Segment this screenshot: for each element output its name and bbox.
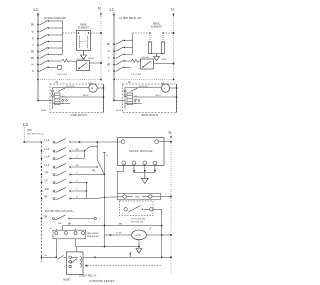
wire motor feed (M2): [125, 87, 161, 89]
motor FM1 (cool-down fan): [105, 229, 153, 240]
svg-text:OVEN RELAY: OVEN RELAY: [79, 274, 97, 277]
node L1 tap to module: [37, 100, 52, 102]
svg-text:DB: DB: [44, 214, 48, 218]
wire main bus dashed (bottom): [41, 142, 43, 262]
svg-text:BK: BK: [107, 44, 111, 46]
node junction on N at B1: [100, 62, 102, 64]
wire igniter drop 2: [144, 165, 146, 173]
svg-text:OR: OR: [45, 170, 49, 174]
wire motor right to N: [146, 234, 172, 236]
wire cool tie y246.6: [76, 246, 140, 248]
relay K3 dashed box: [120, 201, 154, 216]
svg-text:18CW: 18CW: [135, 235, 142, 237]
svg-text:BK W BR: BK W BR: [139, 86, 148, 88]
wire module lower tie: [60, 96, 104, 98]
wire spark out1 to relay contacts: [117, 165, 124, 194]
switch S9 row1: [107, 40, 133, 46]
label cool-down motor relay: [131, 219, 145, 224]
label strip wires: [87, 232, 99, 238]
terminal spark out 2: [132, 161, 136, 165]
wire diagonal BA to x104: [92, 160, 105, 175]
switch relay contact K3: [124, 206, 153, 213]
svg-text:BR: BR: [31, 52, 35, 54]
node N (top-right circuit): [171, 7, 174, 17]
switch in module M1: [58, 88, 65, 92]
wire module lower tie (M2): [133, 96, 178, 98]
switch SW4 row y167 L-LF: [41, 163, 98, 169]
wire stub row3: [83, 151, 85, 159]
svg-text:EVB/KMD SERIES: EVB/KMD SERIES: [90, 279, 115, 283]
wire jog row2 to collector: [84, 147, 97, 152]
svg-text:TOD 14-B: TOD 14-B: [131, 74, 141, 76]
wire dotted cross tie (top-right): [113, 79, 174, 81]
terminal pair module M2: [134, 100, 136, 102]
svg-text:L-LR: L-LR: [44, 154, 50, 158]
label wire colors column: [62, 96, 65, 105]
switch S12 row4 with thermostat squiggle: [107, 59, 141, 66]
svg-text:COOL-DOWN: COOL-DOWN: [131, 219, 145, 221]
label wire colors column (M2): [135, 96, 138, 105]
switch SW8 row y198.5 BF: [41, 194, 106, 200]
switch in module M2: [131, 88, 138, 92]
wire collector vertical x97: [96, 142, 98, 160]
relay contact strip RC2 (cool-down): [53, 229, 86, 239]
svg-text:L1: L1: [110, 7, 115, 12]
wire module right edge: [103, 84, 105, 113]
svg-text:B–BK: B–BK: [117, 233, 123, 235]
svg-text:BK/W: BK/W: [89, 58, 96, 60]
terminal spark in left: [121, 140, 125, 144]
wire strip drop right: [75, 239, 77, 247]
wire motor feed: [53, 87, 89, 89]
node N (bottom): [169, 130, 172, 138]
wire N bus dotted (bottom): [170, 136, 172, 274]
wire dotted cross tie (top-left): [37, 79, 102, 81]
node L1 tap to module M2: [113, 100, 125, 102]
switch SW2 row y151 L-LF: [41, 147, 85, 153]
wire collector x86.5 rows6-8: [86, 183, 88, 199]
ground G3 igniter: [141, 178, 148, 183]
wire element to N (right): [163, 32, 174, 34]
wire B1 to N: [90, 62, 102, 64]
relay coil K2 in module M2: [127, 93, 133, 105]
switch SW7 row y191 SW: [41, 187, 88, 193]
switch S6 row6: [31, 54, 63, 61]
svg-text:ELEMENT: ELEMENT: [78, 28, 89, 30]
svg-text:BL/W: BL/W: [116, 110, 122, 112]
svg-text:ELEMENT: ELEMENT: [151, 27, 162, 29]
switch SW10 blower row: [41, 255, 67, 259]
wire element to N: [91, 32, 102, 34]
switch S4 row4: [32, 41, 63, 47]
wire module bottom stub (M2): [125, 103, 142, 105]
op-box spark module U1: [118, 138, 165, 166]
svg-text:CF: CF: [45, 178, 49, 182]
switch S3 row3: [32, 34, 63, 40]
wire collector vertical (top-right): [132, 33, 134, 54]
svg-text:FAN SW-BK: FAN SW-BK: [87, 232, 99, 235]
node L1 (top-left circuit): [34, 7, 40, 17]
svg-text:L-LF: L-LF: [44, 138, 50, 142]
wire dashed return y265.6: [85, 265, 163, 267]
svg-text:SW: SW: [45, 187, 50, 191]
resistor bake element E1 box: [77, 31, 91, 51]
wire feed to contact strip: [105, 196, 123, 199]
relay interlock box B2: [141, 57, 154, 69]
switch S7 row7 with thermostat squiggle: [32, 59, 77, 66]
node junction on N at element (right): [173, 32, 175, 34]
svg-text:N: N: [171, 7, 174, 12]
relay contact strip RC1: [117, 193, 160, 200]
switch SW1 row y142 L-LF: [24, 138, 121, 144]
wire strip drop left: [55, 239, 57, 257]
wire igniter drop 3: [154, 165, 156, 173]
wire module bottom stub: [53, 103, 71, 105]
wire B2 to N: [154, 63, 174, 65]
svg-text:SPARK MODULE: SPARK MODULE: [129, 149, 153, 153]
switch SW6 row y182.5 CF: [41, 178, 88, 184]
wire L1 bus (top-left): [37, 14, 39, 101]
relay blower box K4: [66, 252, 83, 274]
node N (top-left circuit): [98, 6, 102, 16]
relay interlock box B1: [77, 59, 90, 71]
wire right vertical x161.7: [161, 209, 163, 257]
resistor broil element E2: [148, 32, 164, 53]
svg-text:BR: BR: [68, 223, 72, 225]
svg-text:M: M: [91, 88, 93, 90]
svg-text:SEL SW TOD-14: SEL SW TOD-14: [27, 134, 44, 136]
svg-text:FAN SW-TOD-14-B (COOL): FAN SW-TOD-14-B (COOL): [45, 210, 74, 213]
svg-text:L1: L1: [23, 122, 29, 128]
oven module M1 dashed box: [50, 84, 104, 113]
svg-text:BROIL: BROIL: [153, 24, 161, 26]
node junction on N at element: [100, 32, 102, 34]
wire L1 entry dashed: [23, 128, 25, 143]
svg-text:BAKE: BAKE: [80, 24, 87, 27]
switch S1 row1: [31, 20, 63, 26]
switch S13 row5: [108, 67, 131, 73]
svg-text:REA SW-BR: REA SW-BR: [87, 235, 99, 238]
wire igniter drop 1: [133, 165, 135, 173]
svg-text:MOTOR SW: MOTOR SW: [131, 222, 144, 224]
svg-text:L-LF: L-LF: [44, 163, 50, 167]
svg-text:BR: BR: [107, 65, 111, 67]
svg-text:BR: BR: [119, 223, 122, 225]
svg-text:BK W BR: BK W BR: [66, 86, 75, 88]
broil module M2 dashed box: [123, 84, 177, 113]
svg-text:M: M: [164, 88, 166, 90]
svg-text:HI SPD BROIL SW: HI SPD BROIL SW: [120, 16, 143, 20]
wire stub into blower box: [76, 247, 78, 252]
switch S8 row8: [32, 65, 62, 73]
svg-text:BF: BF: [45, 194, 49, 198]
wire igniter center drop: [144, 173, 146, 179]
wire motor to edge: [97, 87, 104, 89]
terminal spark out 3: [143, 161, 147, 165]
ground G2: [154, 54, 160, 61]
wire vertical x104.5 with top tick: [103, 153, 109, 247]
svg-text:N: N: [98, 6, 101, 11]
node junction row1 collector taps: [79, 141, 81, 143]
terminal spark out 4: [153, 161, 157, 165]
relay coil K1 in module: [55, 93, 61, 105]
svg-text:L1: L1: [34, 7, 39, 12]
wire dashed feed to broil element: [133, 32, 151, 34]
wire igniter tie bar: [134, 172, 155, 174]
node L1 (top-right circuit): [110, 7, 116, 17]
wire L1 bus (top-right): [113, 14, 115, 101]
switch SW3 row y158.5 L-LR: [41, 154, 85, 160]
motor DM2 (broil motor): [161, 83, 170, 92]
svg-text:BROIL MOTOR: BROIL MOTOR: [142, 114, 159, 117]
switch S10 row2: [108, 47, 133, 53]
svg-text:BK–R: BK–R: [83, 95, 89, 97]
svg-text:19NO: 19NO: [135, 197, 141, 199]
svg-text:BK: BK: [31, 25, 35, 27]
svg-text:BR: BR: [76, 149, 79, 151]
wire module right edge (M2): [176, 84, 178, 113]
wire motor to edge (M2): [170, 87, 178, 89]
svg-text:BK: BK: [31, 58, 35, 60]
svg-text:BK/R: BK/R: [162, 59, 168, 61]
switch S11 row3: [108, 54, 133, 61]
terminal pair module M1: [62, 100, 64, 102]
wire motor bottom drop: [138, 240, 140, 247]
wire module inner column: [52, 88, 54, 110]
wire contact strip to N: [152, 193, 172, 198]
wire spark module to N: [159, 141, 172, 143]
svg-text:HI SPD OVEN SW: HI SPD OVEN SW: [44, 16, 66, 20]
svg-text:OVEN MOTOR: OVEN MOTOR: [71, 114, 88, 117]
ground G4 fan motor: [136, 249, 142, 254]
wire dashed feed to bake element: [63, 32, 77, 34]
switch S2 row2: [32, 27, 63, 33]
terminal spark out 1: [122, 161, 126, 165]
svg-text:BL/W: BL/W: [41, 110, 47, 112]
wire blower out to N: [83, 252, 172, 258]
wire N bus dotted (top-left): [100, 14, 102, 80]
svg-text:O: O: [99, 219, 101, 221]
switch SW5 row y174.5 OR: [41, 170, 106, 176]
wire N bus dotted (top-right): [173, 14, 175, 80]
svg-text:TWC: TWC: [27, 129, 33, 132]
svg-text:BR: BR: [76, 165, 79, 167]
wire module inner column (M2): [124, 88, 126, 110]
node junction on N at B2: [173, 63, 175, 65]
svg-text:TOD 14-B: TOD 14-B: [57, 74, 67, 76]
svg-text:BL/BK: BL/BK: [64, 280, 71, 282]
svg-text:BK–R: BK–R: [156, 95, 162, 97]
switch S5 row5: [31, 47, 63, 53]
wire BR tie line: [63, 223, 163, 230]
switch SW9 row y218.5 DB: [41, 214, 101, 220]
ground G1: [81, 51, 87, 60]
terminal spark in right: [155, 140, 159, 144]
svg-text:N: N: [169, 130, 172, 135]
motor DM1 (oven motor): [89, 83, 98, 92]
svg-text:L-LF: L-LF: [44, 147, 50, 151]
wire relay to right vertical: [153, 208, 162, 210]
wire collector vertical (top-left): [62, 21, 64, 54]
